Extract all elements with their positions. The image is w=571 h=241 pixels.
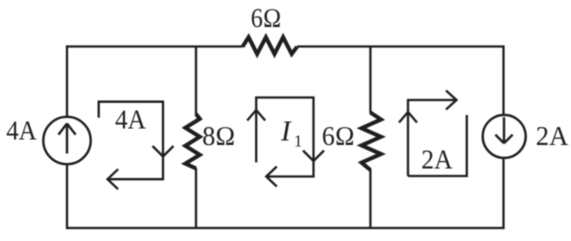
svg-text:4A: 4A [115, 104, 146, 134]
wire left lower [66, 165, 68, 230]
current source I2A circle [483, 115, 526, 158]
svg-text:I: I [280, 115, 292, 147]
mesh loop 4A down arrowhead [153, 146, 174, 157]
mesh loop 2A right-bottom path [408, 115, 467, 176]
svg-text:1: 1 [294, 132, 303, 151]
wire mid-left lower [195, 168, 197, 228]
current source I4A arrow [58, 124, 75, 154]
svg-text:8Ω: 8Ω [202, 121, 235, 151]
wire mid-right lower [369, 170, 371, 229]
current source I2A arrow [495, 117, 512, 143]
wire right upper [502, 45, 504, 114]
mesh loop 2A left-top path [408, 100, 456, 176]
resistor R 6ohm vertical zigzag [362, 113, 382, 171]
mesh loop I1 up arrowhead [247, 110, 265, 121]
svg-text:4A: 4A [6, 116, 37, 146]
wire right lower [502, 159, 504, 229]
resistor R top 6ohm zigzag [243, 37, 298, 54]
svg-text:6Ω: 6Ω [251, 3, 282, 33]
mesh loop I1 left arrowhead [266, 167, 277, 187]
wire bottom [67, 227, 504, 229]
mesh loop 2A up arrowhead [399, 112, 417, 123]
mesh loop 4A left arrowhead [108, 169, 119, 189]
svg-text:2A: 2A [421, 145, 453, 175]
wire left upper [66, 45, 68, 116]
resistor R 8ohm zigzag [185, 114, 200, 168]
mesh loop I1 path [256, 98, 313, 177]
wire top-left segment [67, 45, 243, 47]
svg-text:6Ω: 6Ω [322, 121, 355, 151]
mesh loop I1 down arrowhead [303, 151, 324, 162]
mesh loop 2A right arrowhead [446, 91, 457, 110]
mesh loop 4A path [99, 102, 163, 180]
wire top-right segment [297, 45, 504, 47]
wire mid-left upper [195, 47, 197, 115]
current source I4A circle [43, 117, 90, 164]
wire mid-right upper [369, 47, 371, 114]
svg-text:2A: 2A [536, 121, 569, 151]
